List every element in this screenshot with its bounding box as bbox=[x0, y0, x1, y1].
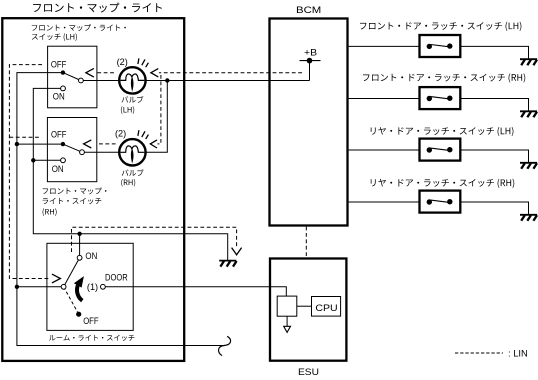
switch SW-RH pole contact bbox=[80, 150, 85, 155]
svg-text:ON: ON bbox=[85, 250, 97, 261]
wire break squiggle bbox=[219, 336, 231, 355]
ground 3 bbox=[520, 163, 537, 169]
label bulb LH line2 bbox=[121, 106, 134, 114]
LIN dash: branch down to RH row bbox=[158, 75, 161, 144]
node: junction at RH ON bbox=[31, 158, 35, 162]
svg-text:OFF: OFF bbox=[51, 59, 67, 70]
node: bus junction at RH OFF bbox=[15, 142, 19, 146]
switch SW-LH ON terminal bbox=[61, 86, 66, 91]
wire: BCM to front door latch switch RH bbox=[349, 98, 420, 100]
switch SW-LH lever bbox=[63, 73, 81, 81]
svg-text:CPU: CPU bbox=[315, 302, 338, 313]
label: front map light title bbox=[33, 3, 162, 13]
switch SW-RH ON terminal bbox=[61, 158, 66, 163]
svg-text:OFF: OFF bbox=[51, 128, 67, 139]
bulb LH rays bbox=[138, 58, 149, 67]
label rear door latch switch LH bbox=[371, 127, 514, 136]
ESU box bbox=[270, 259, 346, 361]
svg-text:ESU: ESU bbox=[298, 366, 319, 377]
LIN dash: BCM to ESU bbox=[305, 227, 307, 258]
node: bus junction at room common bbox=[15, 285, 19, 289]
room switch rotate arrow bbox=[77, 285, 82, 301]
CPU box bbox=[312, 297, 341, 317]
wire: RH lever to bulb RH bbox=[84, 151, 119, 153]
front map light unit box bbox=[2, 18, 184, 361]
svg-text:ON: ON bbox=[52, 163, 64, 174]
front door latch switch LH box bbox=[420, 35, 461, 57]
wire: block to internal ground bbox=[286, 316, 288, 326]
ESU internal ground triangle bbox=[284, 326, 291, 332]
switch SW-LH pole contact bbox=[79, 78, 84, 83]
rear door latch switch LH box bbox=[420, 139, 461, 161]
ground 2 bbox=[520, 111, 537, 117]
svg-text:(1): (1) bbox=[87, 281, 98, 292]
wire: BCM to rear door latch switch LH bbox=[349, 149, 420, 151]
wire: LH lever to bulb LH bbox=[83, 80, 119, 82]
bulb RH bbox=[119, 139, 145, 165]
room switch dashed lever to OFF bbox=[64, 287, 79, 314]
label room light switch bbox=[49, 335, 134, 341]
LIN dash: arrow to RH switch bbox=[98, 143, 116, 145]
node: junction above room ON bbox=[77, 232, 81, 236]
wire: branch down to room ON bbox=[79, 234, 81, 258]
label bulb LH line1 bbox=[122, 96, 144, 103]
label RH switch line2 bbox=[43, 198, 102, 204]
wire: junction down to bulb RH bbox=[146, 81, 168, 153]
wire: front door latch switch LH to ground bbox=[460, 46, 528, 58]
wire: bulb LH to BCM +B bbox=[146, 80, 310, 82]
front map light switch RH box bbox=[47, 118, 96, 182]
ground 4 bbox=[520, 215, 537, 221]
wire: front door latch switch RH to ground bbox=[460, 99, 528, 111]
switch SW-RH lever bbox=[63, 144, 82, 152]
bulb RH rays bbox=[138, 130, 149, 139]
LIN dash: room switch to ground arrow bbox=[72, 227, 237, 252]
legend LIN dash sample bbox=[455, 352, 503, 354]
svg-text:ON: ON bbox=[53, 90, 65, 101]
+B terminal bbox=[300, 58, 321, 81]
svg-text:+B: +B bbox=[304, 47, 317, 58]
wire: BCM to front door latch switch LH bbox=[349, 45, 420, 47]
bulb LH bbox=[119, 67, 145, 93]
label rear door latch switch RH bbox=[371, 179, 515, 188]
switch SW-LH OFF terminal bbox=[61, 70, 65, 74]
label front door latch switch RH bbox=[363, 73, 525, 82]
label LH switch line2 bbox=[32, 33, 77, 41]
wire: OFF bus from LH switch down to break bbox=[17, 73, 224, 346]
LIN dash: arrow to LH switch bbox=[95, 72, 114, 74]
label RH switch line1 bbox=[43, 188, 107, 195]
front door latch switch RH contacts bbox=[427, 96, 453, 102]
room switch OFF dot bbox=[76, 312, 81, 317]
wire: branch to RH OFF bbox=[17, 143, 63, 145]
wire: DOOR to ESU bbox=[105, 287, 286, 296]
label front door latch switch LH bbox=[360, 22, 521, 31]
svg-text:: LIN: : LIN bbox=[508, 347, 528, 358]
svg-text:BCM: BCM bbox=[296, 4, 322, 15]
BCM box bbox=[270, 19, 348, 226]
ground 1 bbox=[520, 59, 537, 65]
wire: ON bus from LH switch down to ground bbox=[33, 88, 227, 260]
svg-text:DOOR: DOOR bbox=[105, 271, 128, 282]
switch SW-RH OFF terminal bbox=[61, 142, 65, 146]
wire: block to CPU bbox=[297, 305, 312, 307]
wire: branch to room switch common bbox=[17, 286, 64, 288]
rear door latch switch RH box bbox=[420, 191, 461, 213]
room switch ON contact bbox=[77, 255, 82, 260]
node: bulb feed junction bbox=[165, 78, 169, 82]
LIN arrow down at ground bbox=[232, 248, 242, 255]
label RH switch line3 bbox=[43, 208, 57, 216]
label bulb RH line1 bbox=[122, 169, 144, 176]
front door latch switch RH box bbox=[420, 87, 461, 109]
wire: BCM to rear door latch switch RH bbox=[349, 201, 420, 203]
room light switch box bbox=[47, 243, 133, 330]
room switch common contact bbox=[61, 284, 66, 289]
svg-text:(2): (2) bbox=[117, 56, 128, 67]
label bulb RH line2 bbox=[121, 179, 135, 187]
LIN arrow at bulb RH bbox=[150, 140, 157, 148]
svg-text:(2): (2) bbox=[115, 128, 126, 139]
rear door latch switch LH contacts bbox=[427, 147, 453, 153]
front map light switch LH box bbox=[48, 46, 97, 108]
wire: rear door latch switch LH to ground bbox=[460, 150, 528, 162]
LIN dash: left bus bbox=[9, 65, 50, 279]
wire: rear door latch switch RH to ground bbox=[460, 202, 528, 214]
room switch DOOR contact bbox=[101, 284, 106, 289]
svg-text:OFF: OFF bbox=[83, 315, 99, 326]
room switch lever to ON bbox=[64, 258, 80, 287]
ground: room light switch bbox=[219, 261, 236, 267]
front door latch switch LH contacts bbox=[427, 43, 453, 49]
wire: branch to RH ON bbox=[33, 159, 60, 161]
ESU interface block bbox=[277, 296, 297, 316]
LIN dash: BCM to bulb LH arrow bbox=[159, 72, 302, 74]
rear door latch switch RH contacts bbox=[427, 199, 453, 205]
LIN dash: stub to RH switch bbox=[9, 136, 40, 138]
label LH switch line1 bbox=[32, 24, 126, 31]
LIN arrow at room switch bbox=[52, 274, 61, 283]
